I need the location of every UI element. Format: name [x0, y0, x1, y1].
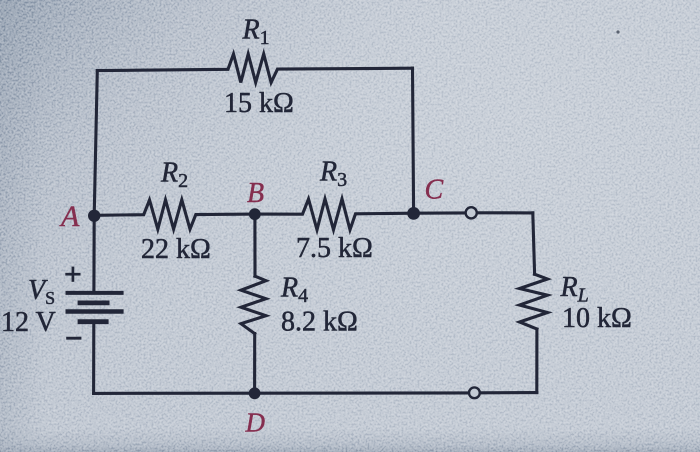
node D junction dot — [249, 387, 261, 399]
battery short plate bottom — [78, 319, 109, 324]
wire top: left corner to R1 to right corner — [97, 54, 412, 83]
open terminal upper right — [466, 207, 477, 218]
svg-text:12 V: 12 V — [1, 307, 56, 338]
node B junction dot — [249, 208, 261, 220]
svg-text:C: C — [425, 175, 444, 206]
resistor RL zigzag — [520, 274, 548, 329]
node A junction dot — [88, 210, 100, 222]
svg-text:D: D — [245, 408, 266, 438]
battery minus sign — [66, 337, 81, 340]
svg-text:B: B — [247, 178, 264, 209]
wire left vertical from top corner to node A — [94, 71, 97, 216]
dust speck — [616, 30, 619, 33]
wire middle: node B through R3 to node C — [255, 199, 414, 230]
wire from node B down to R4 — [253, 214, 256, 276]
wire from node A down to battery top plate — [92, 216, 95, 292]
wire right vertical from top down to node C — [413, 68, 414, 213]
wire from RL to bottom-right corner — [535, 329, 538, 393]
battery plus sign — [65, 267, 80, 282]
wire from R4 to node D — [253, 334, 256, 394]
battery short plate 2 — [78, 300, 110, 305]
wire middle: node A through R2 to node B — [94, 200, 255, 229]
svg-text:15 kΩ: 15 kΩ — [224, 88, 294, 119]
wire from open terminal to right corner — [477, 211, 533, 214]
svg-text:8.2 kΩ: 8.2 kΩ — [281, 307, 358, 338]
wire bottom: left corner to node D — [94, 392, 255, 395]
resistor R4 zigzag — [241, 276, 266, 333]
wire from node C to open terminal — [414, 211, 466, 214]
open terminal lower right — [469, 387, 480, 398]
wire from battery bottom to bottom-left corner — [92, 323, 95, 394]
svg-text:10 kΩ: 10 kΩ — [562, 303, 632, 334]
svg-text:A: A — [59, 200, 80, 233]
svg-text:22 kΩ: 22 kΩ — [141, 234, 211, 265]
battery VS plates — [66, 293, 124, 322]
node C junction dot — [407, 207, 420, 220]
battery long plate top — [66, 291, 124, 295]
wire bottom: open terminal to right corner — [480, 391, 537, 394]
wire right outer vertical down to RL — [533, 213, 535, 274]
wire bottom: node D to open terminal — [255, 391, 469, 394]
svg-text:7.5 kΩ: 7.5 kΩ — [296, 233, 373, 264]
battery long plate 3 — [66, 309, 124, 313]
